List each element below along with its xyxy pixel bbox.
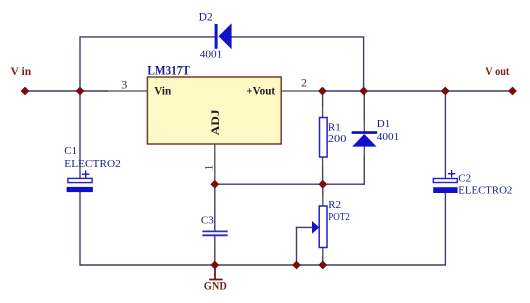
svg-text:1: 1 <box>201 165 215 171</box>
svg-text:ADJ: ADJ <box>208 109 222 135</box>
svg-text:ELECTRO2: ELECTRO2 <box>64 158 121 170</box>
svg-text:GND: GND <box>204 280 227 293</box>
svg-text:LM317T: LM317T <box>147 64 190 78</box>
svg-text:V out: V out <box>485 65 509 78</box>
svg-text:3: 3 <box>121 77 127 91</box>
svg-text:C1: C1 <box>64 145 77 157</box>
svg-text:C2: C2 <box>458 173 471 185</box>
svg-text:POT2: POT2 <box>328 211 350 223</box>
svg-text:+Vout: +Vout <box>246 83 275 97</box>
svg-text:D2: D2 <box>199 12 213 24</box>
svg-text:ELECTRO2: ELECTRO2 <box>458 185 512 197</box>
svg-text:Vin: Vin <box>154 83 171 97</box>
svg-text:2: 2 <box>301 75 307 89</box>
svg-text:4001: 4001 <box>200 48 223 60</box>
svg-text:200: 200 <box>328 133 347 145</box>
svg-text:D1: D1 <box>377 118 390 130</box>
svg-text:R2: R2 <box>328 199 341 211</box>
svg-text:4001: 4001 <box>377 131 400 143</box>
svg-text:V in: V in <box>11 65 32 78</box>
svg-text:C3: C3 <box>201 214 214 226</box>
svg-text:R1: R1 <box>328 121 341 133</box>
